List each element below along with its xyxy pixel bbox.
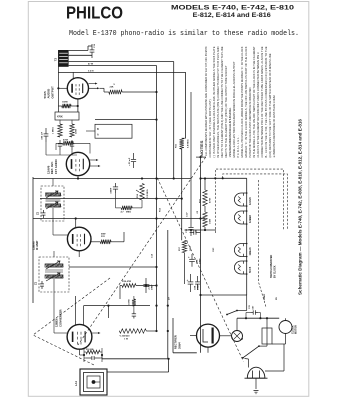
resistor 150 ohm <box>132 299 136 306</box>
svg-text:12BE6: 12BE6 <box>248 215 252 223</box>
Z1 secondary winding <box>45 275 63 278</box>
on-off switch contacts <box>227 311 237 315</box>
dashed switch leader x258.5 <box>259 180 267 307</box>
svg-text:NOTES: NOTES <box>200 141 204 157</box>
svg-text:MARKED `X`. IN THE CLOCK MODEL: MARKED `X`. IN THE CLOCK MODELS, THE OFF… <box>244 46 248 157</box>
clock motor <box>279 321 292 334</box>
svg-text:IN OTHER MODELS, THE 50C5 PLAT: IN OTHER MODELS, THE 50C5 PLATE (PIN 5) … <box>216 46 220 157</box>
wire x156.5 to 331 <box>155 305 157 307</box>
plug stem and symbol <box>255 378 257 389</box>
clock mechanism box <box>262 328 272 344</box>
oscillator transformer Z1 dashed can <box>39 257 69 292</box>
resistors on x205 <box>204 179 206 191</box>
Z2 tuning arrows <box>46 191 58 198</box>
wire y318.2 <box>237 317 279 319</box>
wire rail x200.5 long <box>200 157 202 353</box>
wire rail x156.5 lower <box>156 199 158 331</box>
capacitor .05 <box>133 311 135 313</box>
wire 12BA6 cathode down <box>78 251 80 257</box>
svg-text:50C5: 50C5 <box>248 266 252 273</box>
wire heater rail x246.7 <box>246 178 248 295</box>
svg-text:BY CLOCK: BY CLOCK <box>274 265 277 278</box>
svg-text:220K: 220K <box>76 128 78 134</box>
capacitor .05 <box>133 153 135 159</box>
svg-text:12BA6: 12BA6 <box>248 247 252 256</box>
svg-text:IN THE MODEL E-740, THE ON-OFF: IN THE MODEL E-740, THE ON-OFF SWITCH PA… <box>252 46 256 157</box>
power plug cap <box>247 367 265 378</box>
svg-text:+C8A: +C8A <box>148 284 151 290</box>
svg-text:150W: 150W <box>129 298 131 305</box>
svg-text:CLOCK IS IN THE FILAMENT RETUR: CLOCK IS IN THE FILAMENT RETURN ONLY AND… <box>256 52 260 158</box>
wire rail y218.5 <box>33 218 205 220</box>
svg-text:OUTPUT: OUTPUT <box>50 86 54 99</box>
wire AVC bus y267 <box>69 266 157 268</box>
wire rail x167.8 <box>167 230 169 359</box>
Z1 wires <box>53 251 55 257</box>
wire rail x173.7 <box>173 62 175 179</box>
wire 12BA6 grid left <box>53 234 68 236</box>
svg-text:IF AMP: IF AMP <box>35 240 39 250</box>
svg-text:* ALL COMPONENTS MARKED WITH: * ALL COMPONENTS MARKED WITH ASTERISK AR… <box>204 46 208 157</box>
svg-text:1 SPEAKERS WIRED IN PARALLEL I: 1 SPEAKERS WIRED IN PARALLEL IN THIS MOD… <box>228 107 232 157</box>
wire rectifier bottom <box>207 347 209 353</box>
svg-text:470K: 470K <box>63 139 69 142</box>
on-off switch / tone box <box>95 124 132 138</box>
volume control R14 1/2 meg <box>140 184 144 201</box>
svg-text:PARALLEL.: PARALLEL. <box>236 135 240 157</box>
wire T2 secondary top <box>69 49 88 51</box>
Z2 trimmer caps <box>43 210 45 213</box>
svg-text:RECTIFIER: RECTIFIER <box>174 335 178 349</box>
svg-text:470K: 470K <box>57 116 63 119</box>
capacitor C17 <box>59 140 61 144</box>
wire y155 joining <box>46 154 77 156</box>
svg-text:0.2 M: 0.2 M <box>88 70 94 72</box>
wire 50C5 plate pin <box>89 87 98 89</box>
svg-text:R1 22K: R1 22K <box>86 349 94 351</box>
heater tube 12AV6 <box>234 193 246 206</box>
svg-text:150W: 150W <box>62 102 69 104</box>
resistor 470K above 12AV6 <box>63 141 74 145</box>
svg-text:LAMP: LAMP <box>263 293 266 300</box>
wire converter grid left <box>54 332 67 334</box>
wire 12BA6 plate to R11 <box>91 241 100 243</box>
wire osc junction drop <box>107 306 109 318</box>
svg-text:.04MF: .04MF <box>110 187 113 194</box>
tube V1 12BE6 converter <box>67 324 92 349</box>
resistor divider right <box>70 124 74 137</box>
svg-text:.006 mF: .006 mF <box>42 131 44 140</box>
resistor R17 1000 <box>182 240 186 252</box>
wire rail x185.6 upper <box>185 72 187 138</box>
wire 50C5 plate to R20 and rail <box>100 87 105 89</box>
svg-text:+: + <box>188 255 190 259</box>
svg-text:B-. ALSO IN THE E-740, THE LIN: B-. ALSO IN THE E-740, THE LINE BY-PASS … <box>264 46 268 157</box>
dashed clock-switch line D2 <box>157 178 243 362</box>
svg-text:MODELS E-740, E-742, E-810: MODELS E-740, E-742, E-810 <box>171 4 295 11</box>
resistor 4.7 meg <box>121 206 132 210</box>
converter pin labels <box>92 332 98 334</box>
wire rail x181.7 mid <box>181 149 183 240</box>
dashed clock kit box inner <box>223 174 288 230</box>
svg-text:35W4: 35W4 <box>177 342 181 349</box>
Z1 tuning arrows <box>46 261 60 269</box>
dashed gang line D1 <box>78 157 206 345</box>
tube V4 50C5 audio output <box>67 78 88 99</box>
wire x184.5 lower <box>184 253 186 284</box>
svg-text:CONVERTER: CONVERTER <box>59 309 63 327</box>
wire T2 secondary lower <box>69 54 92 56</box>
svg-text:T2: T2 <box>53 57 57 61</box>
svg-text:+: + <box>187 278 189 282</box>
svg-text:+.05 mF: +.05 mF <box>129 157 131 166</box>
resistor R18 47 ohm <box>122 284 136 288</box>
wire lamp top <box>236 318 238 330</box>
line bypass capacitor C21 <box>250 312 253 314</box>
heater tube 12BE6 <box>234 211 246 224</box>
terminal strip box <box>55 112 79 120</box>
Z2 secondary winding <box>46 204 61 207</box>
electrolytic C8A 50MF near rectifier <box>190 274 192 282</box>
svg-text:B: B <box>97 128 99 131</box>
svg-text:12AV6: 12AV6 <box>248 197 252 205</box>
wire left B- bus <box>32 177 34 303</box>
clock wires <box>285 318 287 320</box>
svg-text:1/2 MEG: 1/2 MEG <box>147 189 149 198</box>
svg-text:⊕ INDICATES A RESISTANCE OF LE: ⊕ INDICATES A RESISTANCE OF LESS THAN 1 … <box>272 95 276 158</box>
svg-text:MEG: MEG <box>126 212 131 214</box>
capacitor C16 .01 <box>190 221 192 227</box>
wire osc to rail <box>101 355 103 359</box>
wire 12BA6 top pin <box>75 219 77 228</box>
svg-text:MOTOR: MOTOR <box>295 325 298 334</box>
caps .02 pair <box>190 232 194 234</box>
rectifier tube 35W4 <box>197 324 220 347</box>
svg-text:NECTS TO THE FILAMENT TAP, (PI: NECTS TO THE FILAMENT TAP, (PIN 6.) OF T… <box>224 65 228 157</box>
resistor R19 V-150/220 <box>119 329 146 333</box>
wire 12AV6 bottom to rail <box>77 176 79 179</box>
wire T2 primary drop <box>57 50 59 112</box>
Z1 trimmers <box>41 281 43 284</box>
wire stub y157 <box>196 156 206 158</box>
resistor R20 470 ohm plate circuit <box>109 90 122 94</box>
svg-text:MODEL E-816 HAS TWO SPEAKERS W: MODEL E-816 HAS TWO SPEAKERS WIRED IN PA… <box>232 61 236 157</box>
tube V3 12AV6 det-avc-1st audio <box>66 152 89 175</box>
bottom switch lever <box>243 346 259 358</box>
tube V2 12BA6 IF amp <box>67 227 91 251</box>
svg-text:E-812, E-814 and E-816: E-812, E-814 and E-816 <box>193 12 271 19</box>
dashed chassis line D3 <box>33 278 110 365</box>
wires into box <box>86 130 95 132</box>
resistor divider left <box>58 124 62 137</box>
svg-text:C8A: C8A <box>194 285 197 290</box>
wire rail y65.5 <box>69 65 157 67</box>
svg-text:MODELS E-740 USED A CLOCK, WIR: MODELS E-740 USED A CLOCK, WIRED FROM TH… <box>240 46 244 157</box>
output transformer T2 <box>58 50 68 67</box>
pilot lamp I1 <box>232 331 243 342</box>
svg-text:CONTAINED IN `EH`, KIT. (SEE: CONTAINED IN `EH`, KIT. (SEE PARTS LIST) <box>208 99 212 157</box>
wire heater feed y178.3 <box>201 177 247 179</box>
svg-text:A: A <box>97 134 99 137</box>
coupling capacitor .006 <box>45 128 47 134</box>
wire heater return y295 <box>201 294 247 296</box>
Z1 core <box>45 269 63 271</box>
capacitor C18 <box>71 140 73 144</box>
resistor R11 68 ohm <box>100 240 111 244</box>
svg-text:C15*: C15* <box>187 212 189 217</box>
dashed clock kit box outer <box>215 169 283 233</box>
wire rail x156.5 <box>156 66 158 199</box>
wire converter top pins <box>74 296 76 325</box>
loop antenna LA1 <box>80 369 107 395</box>
Z2 connecting wires <box>52 179 54 187</box>
electrolytic C8B 30MF <box>191 254 193 259</box>
heater tube 50C5 <box>234 261 246 274</box>
electrolytic .04MF <box>115 183 117 187</box>
svg-text:R18 47W: R18 47W <box>122 280 132 283</box>
wire long rail y178.5 <box>33 178 191 180</box>
wire rail x191 <box>190 92 192 221</box>
wire 50C5 top pin <box>72 72 74 78</box>
svg-text:Schematic Diagram — Models E-7: Schematic Diagram — Models E-740, E-742,… <box>298 119 303 295</box>
svg-text:6.8 MEG: 6.8 MEG <box>188 139 190 148</box>
svg-text:PHILCO: PHILCO <box>66 3 123 23</box>
wire converter cathode down <box>79 349 81 355</box>
IF transformer Z2 dashed can <box>41 186 64 221</box>
svg-text:Model E-1370 phono-radio is si: Model E-1370 phono-radio is similar to t… <box>69 30 299 38</box>
Z2 core <box>46 198 61 200</box>
svg-text:22K: 22K <box>110 87 114 89</box>
resistor 6.8 meg <box>180 138 184 149</box>
svg-text:1 MEG: 1 MEG <box>53 127 55 134</box>
heater bottom wire <box>246 295 248 311</box>
svg-text:IS PART OF THE CLOCK ASSY. AND: IS PART OF THE CLOCK ASSY. AND SWITCH IS… <box>248 87 252 157</box>
Z1 primary winding <box>45 264 63 267</box>
svg-text:CONNECTED BETWEEN PIN 3 OF THE: CONNECTED BETWEEN PIN 3 OF THE RECTIFIER… <box>260 46 264 157</box>
capacitor C19 on speaker line <box>91 44 93 50</box>
svg-text:V-150/220: V-150/220 <box>120 336 131 338</box>
wire rectifier pins <box>190 335 197 337</box>
wire y230 <box>185 229 217 231</box>
svg-text:( ) IS USED ONLY IN MODELS E-8: ( ) IS USED ONLY IN MODELS E-814 AND E-8… <box>212 46 216 157</box>
wire 50C5 cathode down <box>77 99 79 112</box>
resistor R21 150 ohm cathode <box>62 104 71 108</box>
wires filter cluster <box>120 285 122 287</box>
svg-text:NECTS TO FILAMENT (PIN 4) AND: NECTS TO FILAMENT (PIN 4) AND THE LINE C… <box>220 46 224 157</box>
wire B+ rail y61.5 <box>69 61 174 63</box>
wire rail y198.6 <box>40 198 182 200</box>
svg-text:470K: 470K <box>209 197 212 203</box>
heater tube 12BA6 <box>234 244 246 257</box>
Z2 primary winding <box>46 193 61 196</box>
wire loop to chassis rail <box>102 358 169 360</box>
capacitor C8C <box>197 276 199 282</box>
wire y352.8 <box>173 352 197 354</box>
svg-text:50MF: 50MF <box>151 284 153 290</box>
wire rail y119.6 <box>95 119 157 121</box>
svg-text:1ST AUDIO: 1ST AUDIO <box>54 158 58 174</box>
electrolytic C8A 50MF <box>145 278 147 284</box>
osc grid resistor pair <box>80 354 85 356</box>
plug wires up <box>248 359 250 368</box>
wire rail y72.4 <box>58 71 185 73</box>
pin arrows 50C5 <box>95 83 98 85</box>
svg-text:C8C: C8C <box>213 247 215 252</box>
wire 12AV6 plate pins <box>90 159 96 161</box>
wire y305.6 <box>84 305 150 307</box>
svg-text:(C21) RETURNS TO THE `HOT` SID: (C21) RETURNS TO THE `HOT` SIDE OF THE S… <box>268 53 272 157</box>
svg-text:LA1: LA1 <box>74 381 78 386</box>
